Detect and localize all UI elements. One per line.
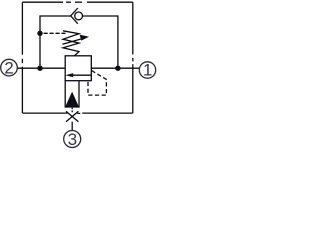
- node: junction dot on port 1 line: [115, 66, 120, 71]
- adjustment arrow head: [80, 35, 89, 41]
- flow channel below body: [65, 81, 79, 107]
- wire: check valve outlet down to port 1 line: [83, 16, 118, 68]
- svg-text:1: 1: [143, 60, 152, 79]
- valve envelope boundary (dash-dot box): [22, 2, 132, 113]
- svg-text:3: 3: [68, 130, 77, 149]
- drain stub (dash) below triangle: [71, 108, 73, 113]
- check valve CV1 seat: [71, 8, 78, 24]
- closed port X symbol: [66, 111, 78, 122]
- spring (adjustable): [63, 31, 79, 56]
- flow arrow line inside body: [72, 74, 91, 76]
- valve spool body U1: [65, 56, 91, 81]
- adjustment arrow shaft: [63, 39, 82, 44]
- wire: to port 3: [71, 122, 73, 131]
- wire: vertical branch up to check valve: [40, 16, 71, 68]
- pilot line (dashed) to spring: [44, 32, 66, 34]
- port 3 circle: [64, 131, 81, 148]
- wire: port 2 line to valve body: [17, 67, 65, 69]
- node: junction dot on port 2 line: [37, 66, 42, 71]
- port 1 circle: [139, 62, 155, 78]
- node: junction dot pilot branch: [37, 31, 42, 36]
- dashed pilot piston path: [88, 71, 106, 96]
- check valve CV1 ball: [75, 12, 83, 20]
- svg-text:2: 2: [4, 58, 13, 77]
- flow arrow head (left) in body: [65, 73, 73, 77]
- port 2 circle: [1, 59, 18, 76]
- main flow triangle (up): [65, 92, 79, 107]
- wire: valve body to port 1: [91, 67, 139, 69]
